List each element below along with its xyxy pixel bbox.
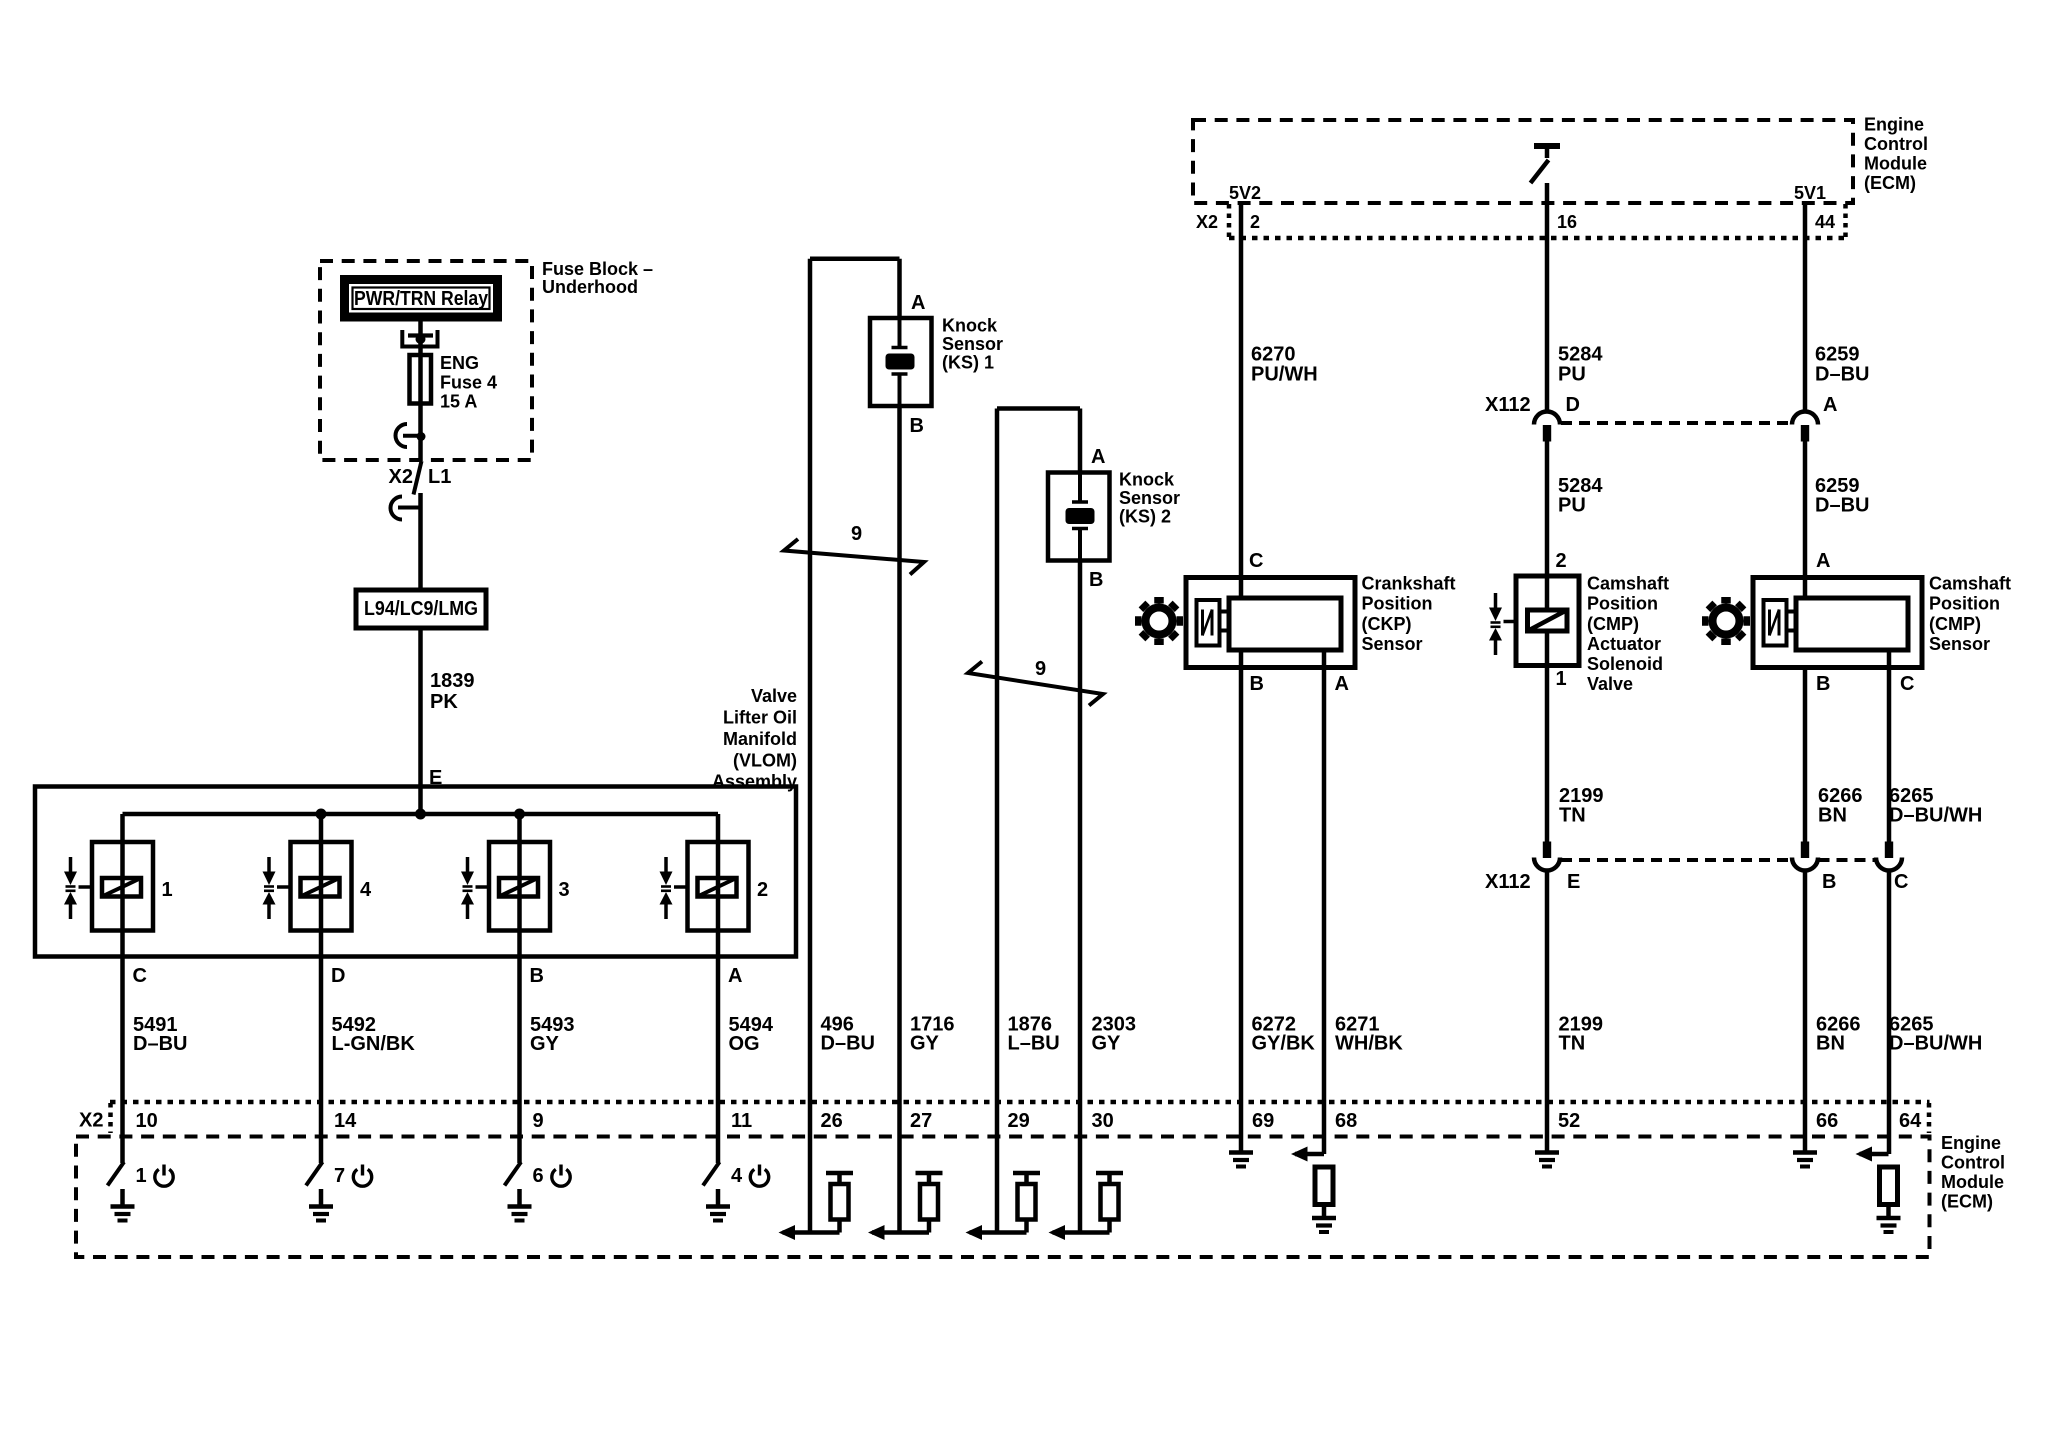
svg-text:6259: 6259 bbox=[1815, 344, 1860, 366]
solenoid valve: CMP actuator bbox=[1516, 576, 1579, 666]
label Fuse Block - Underhood bbox=[542, 259, 653, 297]
resistor (ECM internal pull-up) bbox=[1096, 1173, 1123, 1233]
svg-text:Camshaft: Camshaft bbox=[1587, 574, 1669, 594]
connector X112 pin A bbox=[1792, 412, 1818, 442]
label wire 6266 BN (lower) bbox=[1816, 1014, 1861, 1055]
svg-text:4: 4 bbox=[360, 879, 372, 901]
svg-text:9: 9 bbox=[533, 1110, 544, 1132]
svg-text:X2: X2 bbox=[1196, 212, 1218, 232]
wire: signal continues (arrow left) bbox=[779, 1225, 840, 1240]
wire: VLOM supply bus bbox=[123, 812, 719, 817]
svg-text:68: 68 bbox=[1335, 1110, 1357, 1132]
svg-text:(ECM): (ECM) bbox=[1941, 1192, 1993, 1212]
label wire 1839 PK bbox=[430, 670, 475, 713]
label driver 6 with power icon bbox=[533, 1165, 571, 1188]
ground bbox=[309, 1189, 333, 1221]
pin label A (VLOM) bbox=[728, 965, 742, 987]
wire 2199 TN: CMP actuator 1 to X112 E bbox=[1545, 631, 1550, 842]
svg-text:TN: TN bbox=[1559, 805, 1586, 827]
svg-text:A: A bbox=[1335, 673, 1349, 695]
resistor (ECM internal pull-up) bbox=[826, 1173, 853, 1233]
pin 29 (ECM) bbox=[1008, 1110, 1030, 1132]
svg-text:PU/WH: PU/WH bbox=[1251, 364, 1318, 386]
twisted-pair mark 9 (KS2 wires) bbox=[968, 662, 1103, 706]
pin 52 (ECM) bbox=[1558, 1110, 1580, 1132]
svg-text:L1: L1 bbox=[428, 466, 451, 488]
label solenoid 2 bbox=[757, 879, 768, 901]
relay contact terminal symbol bbox=[402, 330, 437, 347]
label wire 5494 OG bbox=[729, 1014, 774, 1055]
pin 30 (ECM) bbox=[1092, 1110, 1114, 1132]
label wire 6265 D-BU/WH (lower) bbox=[1889, 1014, 1982, 1055]
label ENG Fuse 4 15 A bbox=[440, 353, 497, 412]
wire: signal continues (arrow left) bbox=[1856, 1147, 1889, 1162]
label wire 5284 PU bbox=[1558, 344, 1603, 386]
pin 66 (ECM) bbox=[1816, 1110, 1838, 1132]
wire 1716 GY: KS1-B to ECM pin 27 bbox=[897, 259, 902, 1233]
low-side driver switch 7 (ECM) bbox=[306, 1162, 323, 1186]
svg-text:C: C bbox=[133, 965, 147, 987]
label Engine Control Module (ECM) bottom bbox=[1941, 1133, 2005, 1212]
svg-text:B: B bbox=[1822, 871, 1836, 893]
svg-text:Fuse 4: Fuse 4 bbox=[440, 373, 497, 393]
label wire 1716 GY bbox=[910, 1014, 955, 1055]
pin 11 (X2 connector) bbox=[731, 1110, 752, 1132]
svg-text:9: 9 bbox=[851, 523, 862, 545]
svg-text:27: 27 bbox=[910, 1110, 932, 1132]
label Valve Lifter Oil Manifold (VLOM) Assembly bbox=[712, 686, 797, 792]
pin 64 (ECM) bbox=[1899, 1110, 1922, 1132]
svg-text:26: 26 bbox=[821, 1110, 843, 1132]
relay PWR/TRN Relay (box) bbox=[345, 280, 498, 318]
label wire 5492 L-GN/BK bbox=[332, 1014, 416, 1055]
svg-text:Camshaft: Camshaft bbox=[1929, 574, 2011, 594]
svg-text:Module: Module bbox=[1864, 154, 1927, 174]
svg-text:C: C bbox=[1900, 673, 1914, 695]
svg-text:64: 64 bbox=[1899, 1110, 1922, 1132]
label wire 6270 PU/WH bbox=[1251, 344, 1318, 386]
svg-text:OG: OG bbox=[729, 1033, 760, 1055]
resistor (ECM internal) bbox=[1315, 1167, 1333, 1216]
label Camshaft Position (CMP) Sensor bbox=[1929, 574, 2011, 655]
svg-text:Knock: Knock bbox=[1119, 470, 1175, 490]
svg-text:Actuator: Actuator bbox=[1587, 634, 1661, 654]
pin 69 (ECM) bbox=[1252, 1110, 1274, 1132]
svg-text:B: B bbox=[530, 965, 544, 987]
ground bbox=[111, 1189, 135, 1221]
connector X2 row (top, dotted) bbox=[1229, 204, 1846, 238]
pin 9 (X2 connector) bbox=[533, 1110, 544, 1132]
wire 1876 L-BU: KS2-A to ECM pin 29 bbox=[997, 409, 1080, 1233]
sensor CMP (Camshaft Position Sensor) bbox=[1753, 578, 1922, 668]
connector X112 link (dashed) bbox=[1561, 421, 1792, 425]
svg-text:1: 1 bbox=[1556, 668, 1567, 690]
svg-text:5V1: 5V1 bbox=[1794, 183, 1826, 203]
ground bbox=[1877, 1218, 1901, 1232]
svg-text:(VLOM): (VLOM) bbox=[733, 751, 797, 771]
label driver 1 with power icon bbox=[136, 1165, 174, 1188]
valve symbol at CMP actuator bbox=[1489, 593, 1516, 655]
pin label B (VLOM) bbox=[530, 965, 544, 987]
svg-text:D–BU: D–BU bbox=[133, 1033, 187, 1055]
pin label 2 (CMP actuator) bbox=[1556, 550, 1567, 572]
svg-text:Fuse Block –: Fuse Block – bbox=[542, 259, 653, 279]
svg-text:Lifter Oil: Lifter Oil bbox=[723, 708, 797, 728]
reluctor wheel (gear) at CMP sensor bbox=[1702, 597, 1750, 645]
wire: signal continues (arrow left) bbox=[868, 1225, 929, 1240]
label solenoid 3 bbox=[559, 879, 570, 901]
svg-text:C: C bbox=[1894, 871, 1908, 893]
svg-text:Sensor: Sensor bbox=[1119, 488, 1180, 508]
svg-text:C: C bbox=[1249, 550, 1263, 572]
svg-text:1: 1 bbox=[162, 879, 173, 901]
resistor (ECM internal pull-up) bbox=[1013, 1173, 1040, 1233]
svg-text:A: A bbox=[1823, 394, 1837, 416]
svg-text:A: A bbox=[1816, 550, 1830, 572]
valve symbol at solenoid 4 bbox=[263, 857, 291, 919]
svg-text:PK: PK bbox=[430, 691, 458, 713]
svg-text:Engine: Engine bbox=[1941, 1133, 2001, 1153]
engine code box L94/LC9/LMG bbox=[356, 590, 486, 628]
svg-text:52: 52 bbox=[1558, 1110, 1580, 1132]
pin 44 (ECM X2) bbox=[1815, 212, 1835, 232]
svg-text:X2: X2 bbox=[389, 466, 413, 488]
svg-text:D: D bbox=[331, 965, 345, 987]
svg-text:10: 10 bbox=[136, 1110, 158, 1132]
label wire 5493 GY bbox=[530, 1014, 575, 1055]
label wire 2199 TN (lower) bbox=[1559, 1014, 1604, 1055]
valve symbol at solenoid 3 bbox=[461, 857, 489, 919]
twisted-pair mark 9 (KS1 wires) bbox=[784, 539, 924, 575]
svg-text:5284: 5284 bbox=[1558, 344, 1603, 366]
label X2 (top) bbox=[1196, 212, 1218, 232]
svg-text:5V2: 5V2 bbox=[1229, 183, 1261, 203]
svg-text:D–BU/WH: D–BU/WH bbox=[1889, 805, 1982, 827]
node: bus junction dots bbox=[316, 809, 526, 820]
knock sensor KS2 bbox=[1048, 473, 1110, 561]
svg-text:(ECM): (ECM) bbox=[1864, 173, 1916, 193]
svg-text:Position: Position bbox=[1587, 594, 1658, 614]
svg-text:Module: Module bbox=[1941, 1172, 2004, 1192]
pin label A (CKP) bbox=[1335, 673, 1349, 695]
pin label D (X112) bbox=[1566, 394, 1580, 416]
connector X112 pin D bbox=[1534, 412, 1560, 442]
svg-text:D–BU: D–BU bbox=[821, 1033, 875, 1055]
svg-text:15 A: 15 A bbox=[440, 392, 477, 412]
svg-text:TN: TN bbox=[1559, 1033, 1586, 1055]
engine control module ECM (top dashed box) bbox=[1193, 120, 1853, 203]
pin label E bbox=[429, 767, 442, 789]
svg-text:44: 44 bbox=[1815, 212, 1835, 232]
svg-text:(CMP): (CMP) bbox=[1587, 614, 1639, 634]
wire 1839 PK to VLOM bbox=[418, 628, 423, 787]
svg-text:L–BU: L–BU bbox=[1008, 1033, 1060, 1055]
svg-text:66: 66 bbox=[1816, 1110, 1838, 1132]
ground bbox=[508, 1189, 532, 1221]
svg-text:2: 2 bbox=[1556, 550, 1567, 572]
svg-text:GY: GY bbox=[530, 1033, 560, 1055]
svg-text:A: A bbox=[1091, 446, 1105, 468]
svg-text:6: 6 bbox=[533, 1165, 544, 1187]
label Engine Control Module (ECM) top bbox=[1864, 115, 1928, 194]
svg-text:2: 2 bbox=[757, 879, 768, 901]
wire 1839 PK: connector to engine code box bbox=[418, 493, 423, 590]
svg-text:1: 1 bbox=[136, 1165, 147, 1187]
wire 6259 D-BU: ECM pin 44 to X112 A bbox=[1803, 203, 1808, 411]
pin label 1 (CMP actuator) bbox=[1556, 668, 1567, 690]
wire 2199 TN: X112 E to ECM pin 52 bbox=[1545, 870, 1550, 1151]
wire: E feed into bus bbox=[418, 787, 423, 815]
wire: signal continues (arrow left) bbox=[1049, 1225, 1110, 1240]
wire: relay to fuse bbox=[418, 322, 423, 356]
solenoid 4 (VLOM) bbox=[291, 842, 352, 931]
svg-text:L-GN/BK: L-GN/BK bbox=[332, 1033, 416, 1055]
svg-text:3: 3 bbox=[559, 879, 570, 901]
svg-text:(CMP): (CMP) bbox=[1929, 614, 1981, 634]
ground bbox=[1535, 1153, 1559, 1167]
svg-text:Position: Position bbox=[1929, 594, 2000, 614]
solenoid 3 (VLOM) bbox=[489, 842, 550, 931]
svg-text:GY: GY bbox=[910, 1033, 940, 1055]
label wire 5284 PU (below X112) bbox=[1558, 475, 1603, 517]
svg-text:ENG: ENG bbox=[440, 353, 479, 373]
label wire 496 D-BU bbox=[821, 1014, 875, 1055]
svg-text:PU: PU bbox=[1558, 364, 1586, 386]
ground bbox=[1312, 1218, 1336, 1232]
wire 6270 PU/WH: ECM pin 2 to CKP sensor C bbox=[1239, 203, 1244, 598]
svg-text:D: D bbox=[1566, 394, 1580, 416]
wire: fuse to connector X2-L1 bbox=[418, 404, 423, 462]
svg-text:Sensor: Sensor bbox=[942, 334, 1003, 354]
svg-text:Control: Control bbox=[1864, 134, 1928, 154]
svg-text:29: 29 bbox=[1008, 1110, 1030, 1132]
low-side driver switch 6 (ECM) bbox=[505, 1162, 522, 1186]
svg-text:B: B bbox=[910, 415, 924, 437]
svg-text:30: 30 bbox=[1092, 1110, 1114, 1132]
wire 6266 BN: X112 B to ECM pin 66 bbox=[1803, 870, 1808, 1151]
pin label A (CMP sensor) bbox=[1816, 550, 1830, 572]
svg-text:14: 14 bbox=[334, 1110, 357, 1132]
label 9 bbox=[1035, 658, 1046, 680]
label driver 4 with power icon bbox=[731, 1165, 769, 1188]
svg-text:4: 4 bbox=[731, 1165, 743, 1187]
wire 6265 D-BU/WH: CMP C to X112 C bbox=[1887, 650, 1892, 842]
label X112 (lower row) bbox=[1485, 871, 1531, 893]
label Camshaft Position (CMP) Actuator Solenoid Valve bbox=[1587, 574, 1669, 695]
wire: bus to solenoid 4 to ECM pin 14 bbox=[319, 814, 324, 1163]
wire: signal continues (arrow left) bbox=[1291, 1147, 1324, 1162]
svg-text:(CKP): (CKP) bbox=[1362, 614, 1412, 634]
pin label D (VLOM) bbox=[331, 965, 345, 987]
svg-text:Knock: Knock bbox=[942, 316, 998, 336]
pin label A (KS1) bbox=[911, 292, 925, 314]
label Knock Sensor (KS) 2 bbox=[1119, 470, 1180, 527]
resistor (ECM internal) bbox=[1880, 1167, 1898, 1216]
solenoid 2 (VLOM) bbox=[688, 842, 749, 931]
svg-text:X112: X112 bbox=[1485, 394, 1531, 416]
label solenoid 4 bbox=[360, 879, 372, 901]
wire: bus to solenoid 2 to ECM pin 11 bbox=[716, 814, 721, 1163]
terminal hook (female) inside fuse block bbox=[396, 424, 422, 447]
svg-text:Sensor: Sensor bbox=[1362, 634, 1423, 654]
pin label C (VLOM) bbox=[133, 965, 147, 987]
svg-text:B: B bbox=[1089, 569, 1103, 591]
internal 5V supply contact (ECM) bbox=[1531, 146, 1561, 183]
label X112 (upper row) bbox=[1485, 394, 1531, 416]
label wire 6265 D-BU/WH bbox=[1889, 785, 1982, 827]
svg-text:GY/BK: GY/BK bbox=[1252, 1033, 1316, 1055]
svg-text:BN: BN bbox=[1816, 1033, 1845, 1055]
resistor (ECM internal pull-up) bbox=[916, 1173, 943, 1233]
svg-text:Valve: Valve bbox=[751, 686, 797, 706]
svg-text:69: 69 bbox=[1252, 1110, 1274, 1132]
connector X112 pin E bbox=[1534, 842, 1560, 871]
label 5V2 bbox=[1229, 183, 1261, 203]
pin 10 (X2 connector) bbox=[136, 1110, 158, 1132]
wire 6265 D-BU/WH: X112 C to ECM pin 64 bbox=[1887, 870, 1892, 1154]
svg-text:Position: Position bbox=[1362, 594, 1433, 614]
svg-text:GY: GY bbox=[1092, 1033, 1122, 1055]
pin label B (X112) bbox=[1822, 871, 1836, 893]
label wire 5491 D–BU bbox=[133, 1014, 187, 1055]
svg-text:D–BU: D–BU bbox=[1815, 495, 1869, 517]
svg-text:B: B bbox=[1816, 673, 1830, 695]
svg-text:(KS) 1: (KS) 1 bbox=[942, 353, 994, 373]
label wire 6259 D-BU bbox=[1815, 344, 1869, 386]
pin label B (KS1) bbox=[910, 415, 924, 437]
label Knock Sensor (KS) 1 bbox=[942, 316, 1003, 373]
pin 16 (ECM X2) bbox=[1557, 212, 1577, 232]
svg-text:Engine: Engine bbox=[1864, 115, 1924, 135]
label wire 2303 GY bbox=[1092, 1014, 1137, 1055]
svg-text:D–BU: D–BU bbox=[1815, 364, 1869, 386]
reluctor wheel (gear) at CKP sensor bbox=[1135, 597, 1183, 645]
ground bbox=[706, 1189, 730, 1221]
knock sensor KS1 bbox=[870, 318, 932, 406]
svg-text:L94/LC9/LMG: L94/LC9/LMG bbox=[364, 598, 478, 620]
solenoid 1 (VLOM) bbox=[92, 842, 153, 931]
wire 6266 BN: CMP B to X112 B bbox=[1803, 668, 1808, 842]
label wire 6259 D-BU (below X112) bbox=[1815, 475, 1869, 517]
pin 2 (ECM X2) bbox=[1250, 212, 1260, 232]
svg-text:X112: X112 bbox=[1485, 871, 1531, 893]
svg-text:A: A bbox=[728, 965, 742, 987]
pin 26 (ECM) bbox=[821, 1110, 843, 1132]
engine control module ECM (bottom dashed box) bbox=[76, 1137, 1930, 1258]
label solenoid 1 bbox=[162, 879, 173, 901]
label wire 6266 BN bbox=[1818, 785, 1863, 827]
low-side driver switch 4 (ECM) bbox=[703, 1162, 720, 1186]
svg-text:11: 11 bbox=[731, 1110, 752, 1132]
svg-text:Crankshaft: Crankshaft bbox=[1362, 574, 1456, 594]
svg-text:Manifold: Manifold bbox=[723, 729, 797, 749]
pin label B (CKP) bbox=[1250, 673, 1264, 695]
svg-text:PWR/TRN Relay: PWR/TRN Relay bbox=[354, 288, 489, 310]
svg-text:Underhood: Underhood bbox=[542, 277, 638, 297]
pin label A (KS2) bbox=[1091, 446, 1105, 468]
wire: bus to solenoid 1 to ECM pin 10 bbox=[120, 814, 125, 1163]
svg-text:WH/BK: WH/BK bbox=[1335, 1033, 1403, 1055]
svg-text:9: 9 bbox=[1035, 658, 1046, 680]
low-side driver switch 1 (ECM) bbox=[108, 1162, 125, 1186]
svg-text:16: 16 bbox=[1557, 212, 1577, 232]
svg-text:Control: Control bbox=[1941, 1153, 2005, 1173]
svg-text:A: A bbox=[911, 292, 925, 314]
pin label B (KS2) bbox=[1089, 569, 1103, 591]
sensor CKP (Crankshaft Position Sensor) bbox=[1186, 578, 1355, 668]
label X2 (bottom) bbox=[79, 1110, 103, 1132]
wire 6272 GY/BK: CKP B to ECM pin 69 bbox=[1239, 650, 1244, 1151]
pin label C (CKP) bbox=[1249, 550, 1263, 572]
wire 2303 GY: KS2-B to ECM pin 30 bbox=[1078, 409, 1083, 1233]
connector X2 row (bottom, dotted) bbox=[110, 1102, 1930, 1133]
connector X2 pin L1 (slash through boundary) bbox=[414, 461, 422, 495]
label X2 | L1 bbox=[389, 466, 452, 488]
fuse ENG Fuse 4 15 A bbox=[410, 355, 432, 404]
wire 5284 PU: X112 D to CMP actuator pin 2 bbox=[1545, 442, 1550, 611]
pin 27 (ECM) bbox=[910, 1110, 932, 1132]
wire: signal continues (arrow left) bbox=[966, 1225, 1027, 1240]
svg-text:D–BU/WH: D–BU/WH bbox=[1889, 1033, 1982, 1055]
label wire 6271 WH/BK bbox=[1335, 1014, 1403, 1055]
pin 68 (ECM) bbox=[1335, 1110, 1357, 1132]
wire 6259 D-BU: X112 A to CMP sensor A bbox=[1803, 442, 1808, 599]
svg-text:PU: PU bbox=[1558, 495, 1586, 517]
svg-text:2: 2 bbox=[1250, 212, 1260, 232]
fuse block - underhood (dashed box) bbox=[320, 261, 532, 460]
connector X112 pin B bbox=[1792, 842, 1818, 871]
svg-text:Assembly: Assembly bbox=[712, 772, 797, 792]
svg-text:Sensor: Sensor bbox=[1929, 634, 1990, 654]
connector X112 pin C bbox=[1876, 842, 1902, 871]
label wire 6272 GY/BK bbox=[1252, 1014, 1316, 1055]
wire 5284 PU: ECM pin 16 to X112 D bbox=[1545, 183, 1550, 411]
label wire 1876 L-BU bbox=[1008, 1014, 1060, 1055]
svg-text:Solenoid: Solenoid bbox=[1587, 654, 1663, 674]
node: relay output junction dot bbox=[416, 334, 426, 344]
pin label C (CMP sensor) bbox=[1900, 673, 1914, 695]
label 9 bbox=[851, 523, 862, 545]
pin 14 (X2 connector) bbox=[334, 1110, 357, 1132]
svg-text:7: 7 bbox=[334, 1165, 345, 1187]
svg-text:B: B bbox=[1250, 673, 1264, 695]
svg-text:BN: BN bbox=[1818, 805, 1847, 827]
connector X112 link dashed (E to B) bbox=[1561, 858, 1792, 862]
label driver 7 with power icon bbox=[334, 1165, 372, 1188]
pin label E (X112) bbox=[1567, 871, 1580, 893]
svg-text:(KS) 2: (KS) 2 bbox=[1119, 507, 1171, 527]
svg-text:X2: X2 bbox=[79, 1110, 103, 1132]
wire 496 D-BU: KS1-A to ECM pin 26 bbox=[810, 259, 900, 1233]
wire: bus to solenoid 3 to ECM pin 9 bbox=[517, 814, 522, 1163]
svg-text:E: E bbox=[1567, 871, 1580, 893]
ground bbox=[1793, 1153, 1817, 1167]
VLOM assembly box bbox=[35, 787, 796, 957]
pin label B (CMP sensor) bbox=[1816, 673, 1830, 695]
wire 6271 WH/BK: CKP A to ECM pin 68 bbox=[1322, 650, 1327, 1154]
pin label C (X112) bbox=[1894, 871, 1908, 893]
connector X112 link dashed (B to C) bbox=[1819, 858, 1876, 862]
valve symbol at solenoid 2 bbox=[660, 857, 688, 919]
svg-text:Valve: Valve bbox=[1587, 674, 1633, 694]
label 5V1 bbox=[1794, 183, 1826, 203]
svg-text:1839: 1839 bbox=[430, 670, 475, 692]
label wire 2199 TN bbox=[1559, 785, 1604, 827]
valve symbol at solenoid 1 bbox=[64, 857, 92, 919]
label Crankshaft Position (CKP) Sensor bbox=[1362, 574, 1456, 655]
pin label A (X112) bbox=[1823, 394, 1837, 416]
svg-text:6270: 6270 bbox=[1251, 344, 1296, 366]
